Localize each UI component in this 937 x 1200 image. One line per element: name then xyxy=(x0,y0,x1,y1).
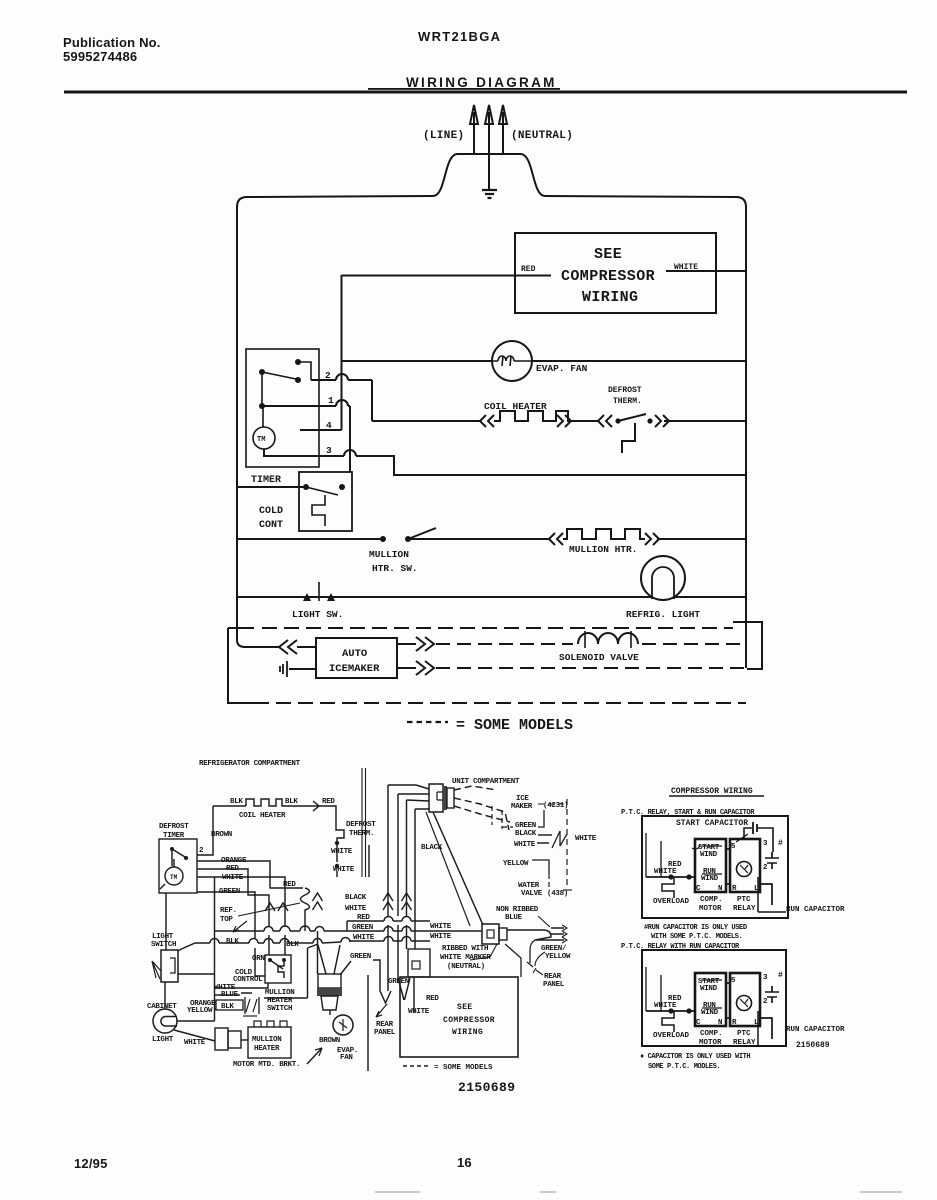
svg-text:COLD: COLD xyxy=(259,506,283,517)
svg-text:HEATER: HEATER xyxy=(254,1045,280,1053)
svg-text:SEE: SEE xyxy=(594,246,622,263)
svg-text:MULLION: MULLION xyxy=(252,1036,281,1044)
svg-text:CONT: CONT xyxy=(259,520,283,531)
svg-text:BLUE: BLUE xyxy=(221,991,239,999)
svg-text:UNIT COMPARTMENT: UNIT COMPARTMENT xyxy=(452,778,520,786)
svg-text:RUN CAPACITOR: RUN CAPACITOR xyxy=(786,906,845,914)
svg-text:TIMER: TIMER xyxy=(251,475,281,486)
svg-text:LIGHT: LIGHT xyxy=(152,933,174,941)
svg-text:RIBBED WITH: RIBBED WITH xyxy=(442,945,488,953)
svg-text:COMPRESSOR WIRING: COMPRESSOR WIRING xyxy=(671,787,753,796)
svg-text:1: 1 xyxy=(328,395,334,406)
svg-text:COIL HEATER: COIL HEATER xyxy=(484,401,547,412)
svg-text:♦ CAPACITOR IS ONLY USED WITH: ♦ CAPACITOR IS ONLY USED WITH xyxy=(640,1053,750,1061)
svg-text:YELLOW: YELLOW xyxy=(503,860,529,868)
svg-text:GREEN/: GREEN/ xyxy=(541,945,567,953)
svg-text:THERM.: THERM. xyxy=(613,397,642,406)
svg-text:Publication No.: Publication No. xyxy=(63,35,161,50)
svg-text:DEFROST: DEFROST xyxy=(346,821,376,829)
svg-text:WHITE: WHITE xyxy=(331,848,353,856)
svg-text:LIGHT SW.: LIGHT SW. xyxy=(292,609,343,620)
svg-text:(4231): (4231) xyxy=(543,802,568,810)
svg-text:16: 16 xyxy=(457,1155,472,1170)
svg-text:WHITE: WHITE xyxy=(430,923,452,931)
svg-text:ORN: ORN xyxy=(252,955,265,963)
svg-text:PANEL: PANEL xyxy=(543,981,565,989)
svg-text:= SOME MODELS: = SOME MODELS xyxy=(434,1064,493,1072)
svg-text:COMPRESSOR: COMPRESSOR xyxy=(443,1016,495,1025)
svg-text:#: # xyxy=(778,971,783,980)
svg-text:PANEL: PANEL xyxy=(374,1029,396,1037)
svg-text:VALVE: VALVE xyxy=(521,890,543,898)
svg-text:WHITE: WHITE xyxy=(184,1039,206,1047)
svg-text:REFRIG. LIGHT: REFRIG. LIGHT xyxy=(626,609,700,620)
svg-text:WHITE: WHITE xyxy=(408,1008,430,1016)
svg-text:REFRIGERATOR COMPARTMENT: REFRIGERATOR COMPARTMENT xyxy=(199,760,301,768)
svg-text:WIRING DIAGRAM: WIRING DIAGRAM xyxy=(406,75,557,90)
svg-text:FAN: FAN xyxy=(340,1054,353,1062)
svg-text:BROWN: BROWN xyxy=(211,831,232,839)
svg-text:BLACK: BLACK xyxy=(421,844,443,852)
svg-text:GREEN: GREEN xyxy=(219,888,240,896)
svg-text:BLACK: BLACK xyxy=(345,894,367,902)
svg-text:RED: RED xyxy=(283,881,296,889)
svg-text:WHITE: WHITE xyxy=(222,874,244,882)
svg-text:YELLOW: YELLOW xyxy=(545,953,571,961)
svg-text:(438): (438) xyxy=(547,890,568,898)
svg-text:ORANGE: ORANGE xyxy=(221,857,247,865)
svg-text:12/95: 12/95 xyxy=(74,1156,108,1171)
svg-text:SOME P.T.C. MODLES.: SOME P.T.C. MODLES. xyxy=(648,1063,720,1071)
svg-text:REAR: REAR xyxy=(376,1021,394,1029)
svg-text:(NEUTRAL): (NEUTRAL) xyxy=(511,130,573,142)
svg-text:SWITCH: SWITCH xyxy=(151,941,176,949)
svg-text:RUN CAPACITOR: RUN CAPACITOR xyxy=(786,1026,845,1034)
svg-text:START CAPACITOR: START CAPACITOR xyxy=(676,819,748,828)
svg-text:BLUE: BLUE xyxy=(505,914,523,922)
svg-text:COIL HEATER: COIL HEATER xyxy=(239,812,286,820)
svg-text:COMPRESSOR: COMPRESSOR xyxy=(561,268,655,285)
svg-text:LIGHT: LIGHT xyxy=(152,1036,174,1044)
svg-text:SWITCH: SWITCH xyxy=(267,1005,292,1013)
svg-text:WHITE: WHITE xyxy=(674,263,698,272)
svg-text:WHITE: WHITE xyxy=(353,934,375,942)
svg-text:BROWN: BROWN xyxy=(319,1037,340,1045)
svg-text:ICEMAKER: ICEMAKER xyxy=(329,663,380,675)
svg-text:BLK: BLK xyxy=(226,938,239,946)
svg-text:WRT21BGA: WRT21BGA xyxy=(418,29,501,44)
svg-text:REAR: REAR xyxy=(544,973,562,981)
svg-text:WIRING: WIRING xyxy=(582,289,638,306)
svg-text:GREEN: GREEN xyxy=(352,924,373,932)
svg-text:THERM.: THERM. xyxy=(349,830,374,838)
svg-text:AUTO: AUTO xyxy=(342,648,367,660)
svg-text:TM: TM xyxy=(257,436,265,444)
svg-text:5995274486: 5995274486 xyxy=(63,49,137,64)
svg-text:BLK: BLK xyxy=(286,941,299,949)
svg-text:MULLION: MULLION xyxy=(369,549,409,560)
svg-text:MOTOR MTD. BRKT.: MOTOR MTD. BRKT. xyxy=(233,1061,300,1069)
svg-text:WHITE: WHITE xyxy=(575,835,597,843)
svg-text:WHITE MARKER: WHITE MARKER xyxy=(440,954,491,962)
svg-text:WATER: WATER xyxy=(518,882,540,890)
svg-text:GREEN: GREEN xyxy=(515,822,536,830)
svg-text:WHITE: WHITE xyxy=(430,933,452,941)
svg-text:HEATER: HEATER xyxy=(267,997,293,1005)
svg-text:3: 3 xyxy=(326,445,332,456)
svg-text:MAKER: MAKER xyxy=(511,803,533,811)
svg-text:RED: RED xyxy=(226,865,239,873)
svg-text:YELLOW: YELLOW xyxy=(187,1007,213,1015)
svg-text:#: # xyxy=(778,839,783,848)
svg-text:CONTROL: CONTROL xyxy=(233,976,263,984)
svg-text:BLACK: BLACK xyxy=(515,830,537,838)
svg-text:MULLION: MULLION xyxy=(265,989,294,997)
svg-text:RED: RED xyxy=(357,914,370,922)
svg-text:WHITE: WHITE xyxy=(345,905,367,913)
svg-text:2150689: 2150689 xyxy=(458,1080,515,1095)
svg-text:GREEN: GREEN xyxy=(388,978,409,986)
svg-text:MULLION HTR.: MULLION HTR. xyxy=(569,544,637,555)
svg-text:BLK: BLK xyxy=(230,798,243,806)
svg-text:DEFROST: DEFROST xyxy=(608,386,642,395)
svg-text:4: 4 xyxy=(326,420,332,431)
svg-text:RED: RED xyxy=(322,798,335,806)
svg-text:CABINET: CABINET xyxy=(147,1003,177,1011)
svg-text:REF.: REF. xyxy=(220,907,237,915)
svg-text:ICE: ICE xyxy=(516,795,529,803)
svg-text:(NEUTRAL): (NEUTRAL) xyxy=(447,963,485,971)
svg-text:TM: TM xyxy=(170,874,178,881)
svg-text:DEFROST: DEFROST xyxy=(159,823,189,831)
svg-text:(LINE): (LINE) xyxy=(423,130,464,142)
svg-text:SEE: SEE xyxy=(457,1003,473,1012)
svg-text:#RUN CAPACITOR IS ONLY USED: #RUN CAPACITOR IS ONLY USED xyxy=(644,924,747,932)
svg-text:WITH SOME P.T.C. MODELS.: WITH SOME P.T.C. MODELS. xyxy=(651,933,742,941)
svg-text:RED: RED xyxy=(521,265,536,274)
svg-text:WIRING: WIRING xyxy=(452,1028,483,1037)
svg-text:TIMER: TIMER xyxy=(163,832,185,840)
svg-text:BLK: BLK xyxy=(285,798,298,806)
svg-text:NON RIBBED: NON RIBBED xyxy=(496,906,539,914)
svg-text:EVAP. FAN: EVAP. FAN xyxy=(536,363,588,374)
svg-text:= SOME MODELS: = SOME MODELS xyxy=(456,717,573,734)
svg-text:TOP: TOP xyxy=(220,916,233,924)
svg-text:2: 2 xyxy=(325,370,331,381)
svg-text:GREEN: GREEN xyxy=(350,953,371,961)
svg-text:RED: RED xyxy=(426,995,439,1003)
svg-text:2: 2 xyxy=(199,847,204,855)
svg-text:WHITE: WHITE xyxy=(333,866,355,874)
svg-text:SOLENOID VALVE: SOLENOID VALVE xyxy=(559,652,639,663)
svg-text:BLK: BLK xyxy=(221,1003,234,1011)
svg-text:WHITE: WHITE xyxy=(514,841,536,849)
svg-text:HTR. SW.: HTR. SW. xyxy=(372,563,418,574)
svg-text:2150689: 2150689 xyxy=(796,1041,830,1050)
